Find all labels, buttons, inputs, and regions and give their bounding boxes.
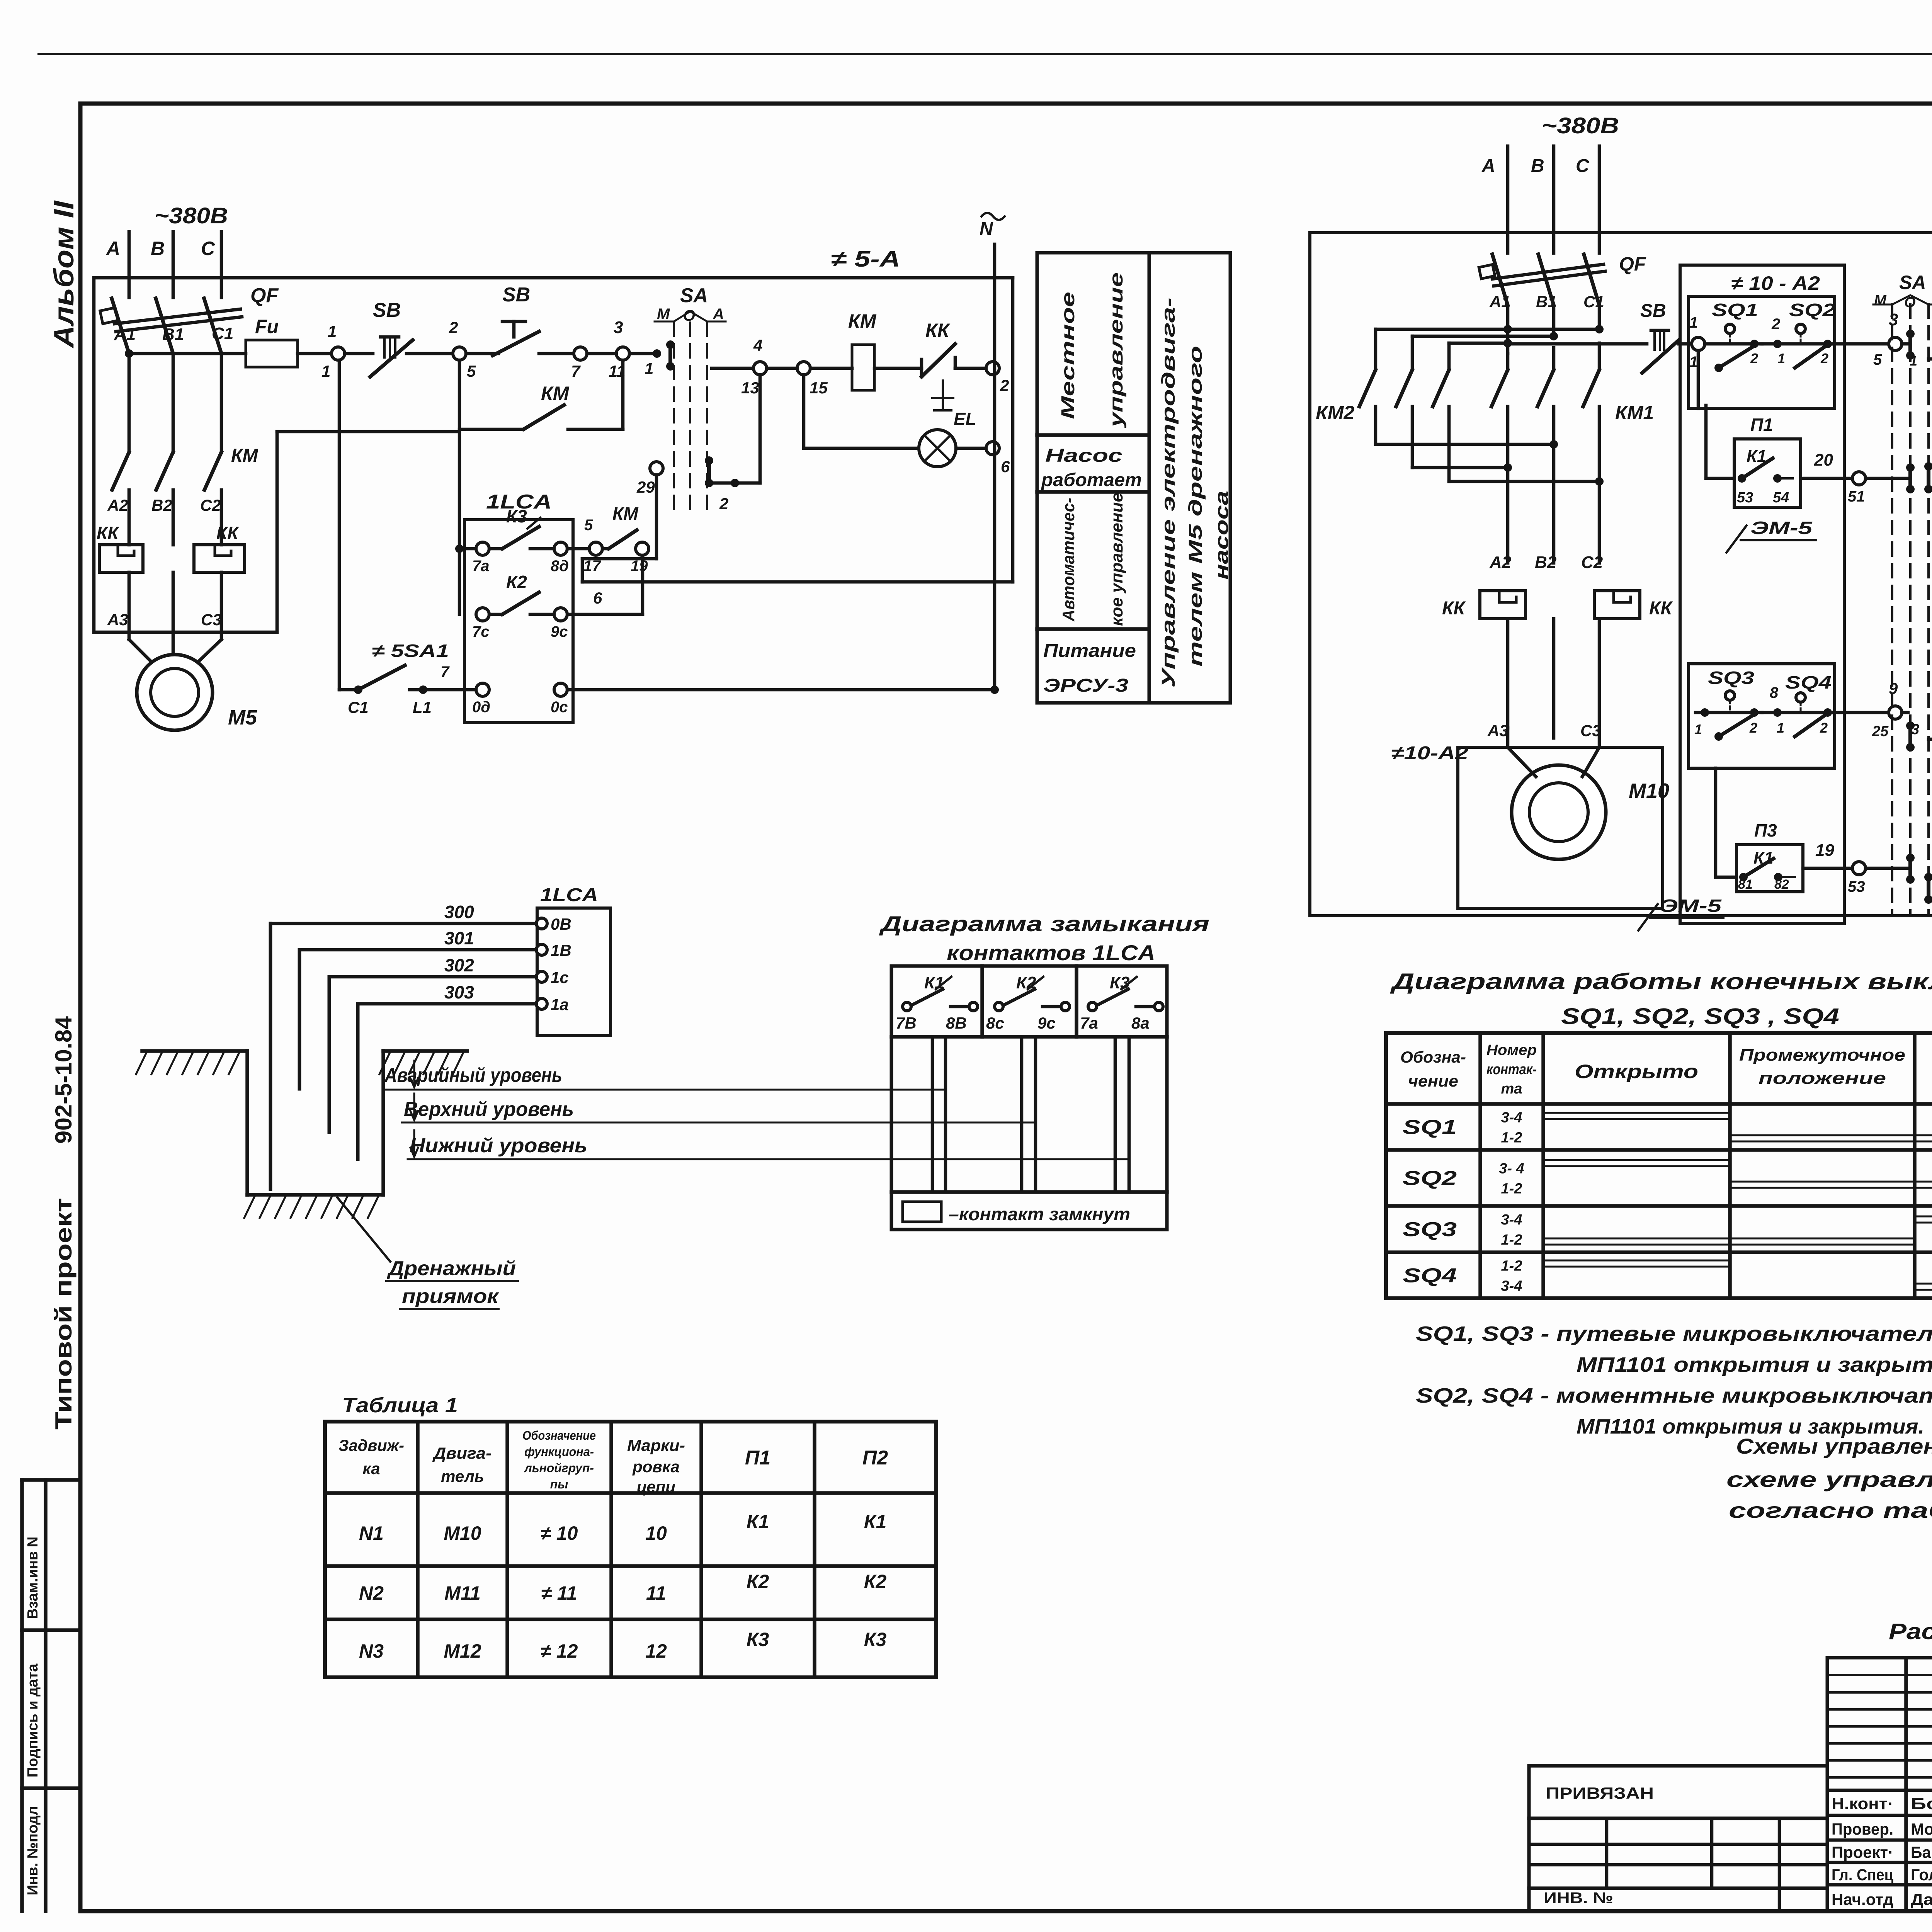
svg-text:SQ1, SQ3 - путевые микровыкл: SQ1, SQ3 - путевые микровыключатели — [1416, 1322, 1932, 1345]
svg-text:53: 53 — [1737, 490, 1753, 506]
svg-text:8д: 8д — [551, 558, 569, 575]
svg-text:ИНВ. №: ИНВ. № — [1544, 1889, 1613, 1906]
svg-text:53: 53 — [1848, 878, 1865, 895]
svg-text:П3: П3 — [1754, 820, 1777, 840]
svg-text:≠ 12: ≠ 12 — [541, 1640, 578, 1662]
svg-text:5: 5 — [467, 362, 476, 380]
svg-text:кое управление: кое управление — [1107, 493, 1126, 626]
svg-text:303: 303 — [444, 982, 474, 1002]
svg-text:К2: К2 — [747, 1571, 769, 1592]
svg-text:1: 1 — [1694, 721, 1702, 737]
svg-text:SQ1: SQ1 — [1403, 1116, 1457, 1139]
svg-text:Насос: Насос — [1045, 446, 1122, 466]
svg-text:N2: N2 — [359, 1582, 384, 1604]
svg-text:SQ1, SQ2, SQ3 , SQ4: SQ1, SQ2, SQ3 , SQ4 — [1561, 1004, 1839, 1029]
svg-text:3-4: 3-4 — [1501, 1278, 1522, 1294]
svg-text:льнойгруп-: льнойгруп- — [524, 1461, 594, 1475]
svg-text:15: 15 — [810, 379, 828, 397]
svg-text:Местное: Местное — [1058, 292, 1078, 419]
svg-text:приямок: приямок — [402, 1285, 500, 1308]
svg-text:согласно таблице 1.: согласно таблице 1. — [1729, 1498, 1932, 1522]
svg-text:~380В: ~380В — [1542, 113, 1619, 138]
svg-text:управление: управление — [1106, 272, 1127, 428]
svg-text:МП1101 открытия и закрыт: МП1101 открытия и закрытия — [1577, 1353, 1932, 1376]
svg-text:1: 1 — [645, 359, 653, 378]
svg-text:С1: С1 — [1583, 293, 1604, 311]
svg-text:3: 3 — [1889, 310, 1898, 329]
svg-text:7: 7 — [571, 362, 581, 380]
svg-text:SQ2: SQ2 — [1403, 1167, 1457, 1190]
svg-text:контак-: контак- — [1486, 1061, 1537, 1078]
svg-text:7а: 7а — [1080, 1014, 1098, 1032]
svg-text:А: А — [1481, 156, 1495, 176]
svg-text:К1: К1 — [747, 1511, 769, 1532]
svg-text:Мосеенко: Мосеенко — [1911, 1820, 1932, 1838]
svg-text:В2: В2 — [1535, 553, 1557, 572]
svg-text:К2: К2 — [864, 1571, 887, 1592]
svg-text:~380В: ~380В — [155, 203, 228, 228]
svg-text:Аварийный уровень: Аварийный уровень — [384, 1064, 562, 1087]
svg-text:2: 2 — [1820, 720, 1828, 736]
svg-text:1а: 1а — [551, 995, 569, 1014]
svg-text:≠ 5SA1: ≠ 5SA1 — [372, 641, 449, 661]
svg-text:L1: L1 — [413, 698, 432, 716]
svg-text:М11: М11 — [444, 1582, 481, 1604]
svg-text:0с: 0с — [551, 699, 568, 716]
svg-text:SQ2, SQ4 - моментные микров: SQ2, SQ4 - моментные микровыключатели — [1416, 1384, 1932, 1407]
svg-text:11: 11 — [646, 1582, 666, 1604]
svg-text:В1: В1 — [162, 325, 184, 344]
svg-text:К3: К3 — [506, 506, 527, 526]
svg-text:Провер.: Провер. — [1832, 1820, 1893, 1838]
svg-text:Обозначение: Обозначение — [522, 1429, 596, 1442]
svg-text:1: 1 — [1689, 314, 1698, 331]
svg-text:N: N — [980, 219, 993, 239]
svg-text:3-4: 3-4 — [1501, 1212, 1522, 1228]
svg-text:телем М5 дренажного: телем М5 дренажного — [1185, 346, 1206, 667]
svg-text:Fu: Fu — [255, 316, 279, 337]
svg-text:Бакшеева: Бакшеева — [1911, 1843, 1932, 1861]
svg-text:13: 13 — [741, 379, 759, 397]
svg-text:54: 54 — [1773, 490, 1789, 506]
svg-text:К2: К2 — [506, 572, 527, 592]
svg-text:схеме управления задвижкой: схеме управления задвижкой М10 с изменен… — [1726, 1467, 1932, 1492]
svg-text:8с: 8с — [986, 1014, 1004, 1032]
svg-text:SB: SB — [502, 284, 530, 306]
svg-text:М: М — [1874, 293, 1887, 309]
svg-text:SB: SB — [1640, 301, 1666, 321]
svg-text:КМ: КМ — [541, 383, 570, 404]
svg-text:1с: 1с — [551, 968, 569, 986]
svg-text:С2: С2 — [200, 496, 221, 514]
svg-text:1В: 1В — [551, 941, 571, 959]
svg-text:ПРИВЯЗАН: ПРИВЯЗАН — [1546, 1784, 1654, 1802]
svg-text:В2: В2 — [151, 496, 172, 514]
svg-text:КМ2: КМ2 — [1316, 402, 1354, 423]
svg-text:82: 82 — [1774, 877, 1789, 892]
svg-text:81: 81 — [1738, 877, 1753, 892]
svg-text:–контакт замкнут: –контакт замкнут — [949, 1204, 1130, 1224]
svg-text:А: А — [105, 238, 120, 259]
svg-text:Альбом II: Альбом II — [49, 200, 80, 349]
svg-text:1: 1 — [1777, 720, 1784, 736]
svg-text:N3: N3 — [359, 1640, 384, 1662]
svg-text:SQ1: SQ1 — [1712, 300, 1758, 320]
svg-text:Гольцман: Гольцман — [1911, 1866, 1932, 1884]
svg-text:В: В — [1531, 156, 1544, 176]
svg-text:П2: П2 — [862, 1447, 888, 1469]
svg-text:2: 2 — [1771, 316, 1780, 333]
svg-text:7с: 7с — [472, 623, 490, 640]
svg-text:М: М — [657, 306, 670, 323]
svg-text:С2: С2 — [1581, 553, 1603, 572]
svg-text:1: 1 — [1777, 350, 1785, 366]
svg-text:1: 1 — [321, 362, 330, 380]
svg-text:Гл. Спец: Гл. Спец — [1832, 1866, 1893, 1884]
svg-text:3- 4: 3- 4 — [1499, 1161, 1524, 1177]
svg-text:Типовой проект: Типовой проект — [51, 1198, 77, 1430]
svg-text:Промежуточное: Промежуточное — [1739, 1046, 1905, 1065]
svg-text:К1: К1 — [864, 1511, 887, 1532]
svg-text:4: 4 — [753, 336, 762, 354]
svg-text:1-2: 1-2 — [1501, 1181, 1522, 1197]
svg-text:Рассматривать совместно с: Рассматривать совместно с листами ЭМ-5. — [1889, 1619, 1932, 1644]
svg-text:7а: 7а — [472, 558, 490, 575]
svg-text:1: 1 — [328, 322, 337, 340]
svg-text:6: 6 — [593, 589, 602, 607]
svg-text:Н.конт·: Н.конт· — [1832, 1794, 1893, 1813]
svg-text:Дренажный: Дренажный — [387, 1257, 516, 1280]
svg-text:КМ: КМ — [848, 310, 877, 332]
svg-text:Подпись и дата: Подпись и дата — [25, 1663, 41, 1777]
svg-text:Двига-: Двига- — [432, 1444, 492, 1462]
svg-text:QF: QF — [250, 284, 279, 307]
svg-text:КК: КК — [1649, 598, 1673, 619]
svg-text:КК: КК — [216, 523, 239, 543]
svg-text:25: 25 — [1872, 723, 1889, 740]
svg-text:29: 29 — [636, 478, 655, 496]
svg-text:3-4: 3-4 — [1501, 1110, 1522, 1126]
svg-text:К3: К3 — [864, 1629, 887, 1650]
svg-text:1-2: 1-2 — [1501, 1130, 1522, 1146]
svg-text:чение: чение — [1408, 1072, 1458, 1090]
svg-text:2: 2 — [1750, 350, 1758, 366]
svg-text:контактов 1LCA: контактов 1LCA — [947, 940, 1155, 965]
svg-text:С3: С3 — [201, 611, 222, 629]
svg-text:12: 12 — [645, 1640, 667, 1662]
svg-text:3: 3 — [614, 318, 623, 337]
svg-text:ЭМ-5: ЭМ-5 — [1750, 518, 1813, 538]
svg-text:SQ2: SQ2 — [1789, 300, 1836, 320]
svg-text:≠ 5-А: ≠ 5-А — [831, 247, 900, 272]
svg-text:2: 2 — [1749, 720, 1757, 736]
svg-text:А: А — [713, 306, 724, 323]
svg-text:Проект·: Проект· — [1832, 1843, 1893, 1861]
svg-text:М5: М5 — [228, 706, 257, 729]
svg-text:SQ4: SQ4 — [1785, 672, 1832, 692]
svg-text:работает: работает — [1041, 470, 1142, 490]
svg-text:С1: С1 — [348, 698, 369, 716]
svg-text:8: 8 — [1770, 684, 1779, 701]
svg-text:19: 19 — [631, 558, 648, 575]
svg-text:Питание: Питание — [1043, 641, 1136, 661]
svg-text:0В: 0В — [551, 915, 571, 933]
svg-text:9с: 9с — [551, 623, 568, 640]
svg-text:КК: КК — [1442, 598, 1466, 619]
svg-text:М10: М10 — [1629, 779, 1669, 803]
svg-text:1-2: 1-2 — [1501, 1232, 1522, 1248]
svg-text:Диаграмма замыкания: Диаграмма замыкания — [879, 912, 1209, 936]
svg-text:6: 6 — [1001, 457, 1010, 476]
svg-text:А1: А1 — [114, 325, 136, 344]
svg-text:С: С — [1576, 156, 1590, 176]
svg-text:Таблица 1: Таблица 1 — [342, 1394, 458, 1417]
svg-text:С1: С1 — [212, 324, 233, 343]
svg-text:SА: SА — [1899, 272, 1926, 293]
svg-text:А3: А3 — [1487, 721, 1509, 740]
svg-text:8а: 8а — [1131, 1014, 1150, 1032]
svg-text:7В: 7В — [896, 1014, 917, 1032]
svg-text:2: 2 — [1820, 350, 1828, 366]
svg-text:Обозна-: Обозна- — [1400, 1048, 1466, 1066]
svg-text:Верхний уровень: Верхний уровень — [404, 1098, 574, 1121]
svg-text:1LCA: 1LCA — [540, 885, 598, 905]
svg-text:Бокова: Бокова — [1911, 1794, 1932, 1813]
svg-text:2: 2 — [1000, 376, 1009, 395]
svg-text:КК: КК — [925, 320, 951, 341]
svg-text:SQ3: SQ3 — [1708, 668, 1755, 688]
svg-text:10: 10 — [645, 1522, 667, 1544]
svg-text:N1: N1 — [359, 1522, 384, 1544]
svg-text:5: 5 — [1873, 351, 1882, 368]
svg-text:С: С — [201, 238, 215, 259]
svg-text:Инв. №подл: Инв. №подл — [25, 1806, 41, 1895]
svg-text:SA: SA — [680, 284, 708, 307]
svg-text:300: 300 — [444, 902, 474, 922]
svg-text:та: та — [1501, 1081, 1522, 1097]
svg-text:Данилов: Данилов — [1911, 1890, 1932, 1908]
svg-text:2: 2 — [719, 495, 728, 513]
svg-text:9с: 9с — [1037, 1014, 1056, 1032]
svg-text:Задвиж-: Задвиж- — [338, 1436, 404, 1454]
svg-text:П1: П1 — [745, 1447, 770, 1469]
svg-text:цепи: цепи — [637, 1478, 675, 1496]
svg-text:М10: М10 — [444, 1522, 481, 1544]
svg-text:пы: пы — [550, 1477, 568, 1491]
svg-text:В: В — [151, 238, 165, 259]
svg-text:≠10-А2: ≠10-А2 — [1391, 743, 1468, 764]
svg-text:ка: ка — [362, 1459, 380, 1478]
svg-text:Номер: Номер — [1486, 1042, 1537, 1058]
svg-text:КК: КК — [97, 523, 119, 543]
svg-text:Автоматичес-: Автоматичес- — [1059, 498, 1078, 622]
svg-text:Взам.инв N: Взам.инв N — [25, 1537, 41, 1619]
svg-text:насоса: насоса — [1212, 491, 1232, 580]
svg-text:Управление электродвига-: Управление электродвига- — [1158, 298, 1179, 688]
svg-text:Схемы управления задвижками: Схемы управления задвижками М11, М12 ана… — [1736, 1434, 1932, 1458]
svg-text:М12: М12 — [444, 1640, 481, 1662]
svg-text:SB: SB — [373, 299, 401, 321]
svg-text:5: 5 — [584, 517, 593, 534]
svg-text:Нач.отд: Нач.отд — [1832, 1890, 1893, 1908]
svg-text:КМ1: КМ1 — [1615, 402, 1654, 423]
svg-text:301: 301 — [444, 928, 474, 948]
svg-text:QF: QF — [1619, 253, 1646, 275]
svg-text:SQ3: SQ3 — [1403, 1218, 1457, 1241]
svg-text:≠ 11: ≠ 11 — [541, 1582, 577, 1604]
svg-text:положение: положение — [1759, 1069, 1886, 1088]
svg-text:902-5-10.84: 902-5-10.84 — [51, 1016, 77, 1144]
svg-text:Нижний уровень: Нижний уровень — [410, 1134, 587, 1157]
svg-text:1-2: 1-2 — [1501, 1258, 1522, 1274]
svg-text:П1: П1 — [1750, 415, 1773, 435]
svg-text:ЭРСУ-3: ЭРСУ-3 — [1043, 675, 1128, 696]
svg-text:А2: А2 — [1489, 553, 1512, 572]
svg-text:7: 7 — [440, 663, 450, 680]
svg-text:Марки-: Марки- — [627, 1436, 685, 1454]
svg-text:ровка: ровка — [632, 1458, 680, 1476]
svg-text:Открыто: Открыто — [1575, 1061, 1698, 1082]
svg-text:0д: 0д — [472, 699, 490, 716]
svg-text:19: 19 — [1815, 841, 1834, 860]
svg-text:20: 20 — [1814, 451, 1833, 469]
svg-text:SQ4: SQ4 — [1403, 1265, 1457, 1287]
svg-text:А2: А2 — [107, 496, 128, 514]
svg-text:51: 51 — [1848, 488, 1865, 505]
svg-text:КМ: КМ — [612, 503, 639, 524]
svg-text:К3: К3 — [747, 1629, 769, 1650]
svg-text:А3: А3 — [107, 611, 128, 629]
svg-text:17: 17 — [583, 558, 601, 575]
svg-text:302: 302 — [444, 955, 474, 975]
svg-text:ЭМ-5: ЭМ-5 — [1660, 896, 1722, 916]
svg-text:≠ 10 - А2: ≠ 10 - А2 — [1731, 272, 1820, 294]
svg-text:КМ: КМ — [231, 446, 259, 466]
svg-text:≠ 10: ≠ 10 — [541, 1522, 578, 1544]
svg-text:8В: 8В — [946, 1014, 967, 1032]
svg-text:функциона-: функциона- — [524, 1445, 594, 1459]
svg-text:тель: тель — [441, 1467, 484, 1485]
svg-text:2: 2 — [449, 318, 458, 337]
svg-text:Диаграмма работы конечных в: Диаграмма работы конечных выключателей — [1389, 969, 1932, 994]
svg-text:EL: EL — [954, 409, 976, 429]
